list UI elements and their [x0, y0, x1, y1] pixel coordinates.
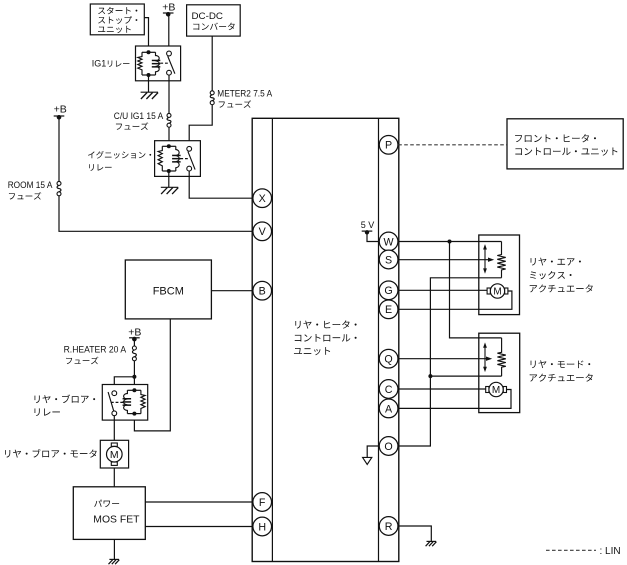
relay ignition box [155, 141, 201, 177]
wire start-stop unit to IG1 relay coil [144, 18, 148, 53]
svg-text:S: S [385, 254, 392, 266]
motor M actuator 1 [487, 284, 508, 298]
wire pin S to actuator 1 wiper [398, 258, 494, 262]
pin G [379, 281, 398, 300]
svg-text:M: M [493, 287, 501, 298]
relay ignition coil [158, 144, 181, 173]
ground under MOS FET [109, 559, 120, 564]
box start-stop unit (スタート・ストップ・ユニット) [90, 4, 144, 35]
wire pin Q to actuator 2 wiper [398, 357, 492, 361]
pin X [253, 189, 272, 208]
svg-text:: LIN: : LIN [600, 546, 621, 557]
wire FBCM to pin B [211, 290, 253, 292]
svg-text:W: W [384, 236, 395, 248]
wire blower switch to motor [113, 416, 115, 441]
wire O branch to actuator 2 potentiometer bottom [430, 375, 501, 377]
potentiometer actuator 2 [483, 338, 506, 376]
wire MOS FET to pin H [145, 526, 253, 528]
pin R [379, 517, 398, 536]
relay IG1 switch [167, 51, 175, 75]
wire +B to R.HEATER fuse [133, 339, 135, 346]
wire W branch to actuator 2 potentiometer [450, 242, 502, 338]
wire +B to IG1 relay switch [168, 14, 170, 51]
pin B [253, 281, 272, 300]
motor M blower [107, 443, 123, 465]
svg-text:F: F [259, 497, 266, 509]
box blower motor [100, 440, 128, 468]
label C/U IG1 15 A フューズ [114, 111, 163, 130]
relay blower dashed link [111, 401, 124, 403]
wire C/U IG1 fuse to ignition relay coil [168, 127, 170, 146]
wire pin G to actuator 1 motor [398, 289, 487, 291]
svg-text:ROOM 15 A: ROOM 15 A [8, 180, 53, 190]
wire DC-DC converter down [211, 36, 213, 91]
svg-text:O: O [384, 441, 392, 453]
relay IG1 box [136, 46, 181, 81]
ground under ignition relay [161, 187, 179, 194]
relay IG1 dashed link [160, 62, 169, 64]
box rear mode actuator [479, 333, 520, 412]
svg-text:Q: Q [384, 354, 392, 366]
wire R.HEATER fuse to relay [133, 361, 135, 390]
relay blower box [102, 385, 147, 421]
power +B terminal (top) [162, 1, 175, 16]
svg-text:MOS FET: MOS FET [93, 515, 139, 526]
svg-text:IG1: IG1 [92, 59, 107, 69]
relay ignition switch [187, 146, 195, 171]
svg-text:X: X [259, 193, 266, 205]
pin F [253, 493, 272, 512]
svg-text:+B: +B [54, 104, 67, 116]
svg-text:M: M [110, 449, 119, 461]
svg-text:H: H [258, 521, 266, 533]
power +B terminal (R.HEATER) [128, 327, 141, 342]
svg-text:+B: +B [162, 1, 175, 13]
box DC-DC converter (DC-DCコンバータ) [187, 5, 241, 36]
pin V [253, 222, 272, 241]
pin P [379, 135, 398, 154]
fuse ROOM 15A [57, 181, 61, 195]
node junction R.HEATER branch [132, 375, 136, 379]
legend LIN text [600, 546, 621, 557]
relay blower switch (mirrored) [108, 391, 117, 416]
wire MOS FET to ground [113, 539, 115, 559]
label rear mode actuator (リヤ・モード・アクチュエータ) [530, 360, 593, 381]
label blower motor (リヤ・ブロア・モータ) [5, 449, 97, 458]
node junction W branch [448, 240, 452, 244]
pin O [379, 437, 398, 456]
ground under IG1 relay [141, 92, 159, 99]
wire ROOM fuse to pin V [59, 196, 253, 232]
svg-text:R: R [385, 521, 393, 533]
label R.HEATER 20 A フューズ [64, 345, 127, 365]
pin W [379, 232, 398, 251]
wire +B left down [58, 117, 60, 181]
svg-text:V: V [259, 226, 267, 238]
wire pin O to potentiometer commons [398, 278, 502, 446]
legend LIN dashed sample [546, 549, 596, 551]
svg-text:A: A [385, 403, 393, 415]
svg-text:+B: +B [128, 327, 141, 339]
wire pin O to arrow terminal [367, 446, 379, 457]
power 5V terminal [361, 220, 375, 235]
svg-text:DC-DC: DC-DC [192, 11, 224, 22]
fuse C/U IG1 15A [167, 113, 171, 127]
relay blower coil (mirrored) [123, 388, 146, 415]
label blower relay (リヤ・ブロア・リレー) [34, 395, 95, 416]
svg-text:P: P [385, 140, 392, 152]
relay ignition dashed link [180, 158, 189, 160]
pin A [379, 399, 398, 418]
label ignition relay (イグニッション・リレー) [88, 151, 151, 171]
box FBCM [125, 260, 211, 319]
wire pin W to actuator 1 potentiometer [398, 241, 502, 243]
svg-text:E: E [385, 304, 392, 316]
svg-text:R.HEATER 20 A: R.HEATER 20 A [64, 345, 127, 355]
label ROOM 15 A フューズ [8, 180, 53, 200]
wire IG1 switch to C/U IG1 fuse [168, 75, 170, 113]
wire pin R to ground [398, 526, 432, 541]
svg-text:FBCM: FBCM [153, 285, 184, 297]
pin H [253, 517, 272, 536]
svg-text:B: B [259, 286, 266, 298]
relay IG1 coil [138, 50, 161, 77]
pin C [379, 380, 398, 399]
wire branch to blower relay switch [114, 377, 134, 391]
pin E [379, 300, 398, 319]
power +B terminal (left) [54, 104, 67, 120]
wire pin C to actuator 2 motor [398, 388, 486, 390]
node junction O branch [428, 374, 432, 378]
fuse METER2 7.5A [210, 91, 214, 105]
wire MOS FET to pin F [145, 501, 253, 503]
wire IG1 coil to ground [148, 75, 150, 92]
svg-text:M: M [492, 385, 500, 396]
wire METER2 fuse to ignition relay switch [189, 105, 212, 147]
svg-text:5 V: 5 V [361, 220, 375, 230]
label METER2 7.5 A フューズ [217, 89, 272, 108]
svg-text:C/U IG1 15 A: C/U IG1 15 A [114, 111, 163, 121]
arrow terminal below pin O [363, 457, 372, 464]
ground at pin R [426, 541, 437, 546]
wire pin A to actuator 2 motor [398, 390, 511, 409]
box front heater control unit (フロント・ヒータ・コントロール・ユニット) [507, 119, 623, 169]
fuse R.HEATER 20A [132, 346, 136, 361]
wire ignition switch to pin X [189, 171, 253, 198]
pin S [379, 250, 398, 269]
wire FBCM to blower relay coil [134, 319, 170, 431]
pin Q [379, 349, 398, 368]
svg-text:METER2 7.5 A: METER2 7.5 A [217, 89, 272, 99]
label IG1 relay (IG1リレー) [92, 59, 130, 69]
potentiometer actuator 1 [483, 242, 506, 278]
wire ignition coil to ground [168, 171, 170, 187]
wire blower motor to power MOS FET [113, 468, 115, 487]
box rear air mix actuator [479, 235, 520, 315]
box rear heater control unit (リヤ・ヒータ・コントロール・ユニット) [252, 118, 399, 561]
svg-text:C: C [385, 384, 393, 396]
label rear air mix actuator (リヤ・エア・ミックス・アクチュエータ) [530, 258, 593, 293]
svg-text:G: G [384, 285, 392, 297]
wire 5V to pin W [367, 232, 379, 241]
wire pin E to actuator 1 motor [398, 291, 512, 309]
box power MOS FET (パワーMOS FET) [73, 487, 145, 540]
motor M actuator 2 [486, 382, 507, 396]
wire LIN dashed P to front unit [398, 144, 507, 146]
